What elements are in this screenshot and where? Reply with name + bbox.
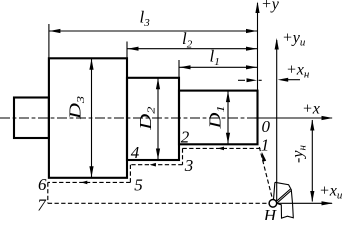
centerline: [0, 117, 258, 119]
dimension D2: [157, 78, 159, 160]
tool path 6-7: [47, 182, 49, 203]
tool path 1-2: [183, 147, 261, 149]
tool holder: [275, 182, 293, 218]
svg-text:0: 0: [261, 117, 270, 136]
tool path H-1 diagonal: [259, 147, 272, 200]
machine axis x_n right arrow: [238, 79, 245, 81]
dimension -y_n: [311, 120, 313, 202]
extension line l2: [126, 42, 128, 59]
svg-text:H: H: [263, 206, 278, 220]
svg-text:4: 4: [131, 143, 140, 162]
tool path 7-H: [48, 202, 269, 204]
svg-text:6: 6: [38, 175, 47, 194]
tool path 2-3: [182, 148, 184, 164]
workpiece stub (chuck end): [14, 98, 49, 139]
dimension D3: [91, 58, 93, 178]
tool tip circle H: [269, 200, 277, 208]
dimension l1: [179, 66, 258, 68]
extension line l3: [48, 24, 50, 58]
svg-text:1: 1: [261, 136, 270, 155]
dimension l2: [127, 48, 258, 50]
workpiece step D1: [179, 91, 258, 145]
tool path 3-4: [130, 164, 182, 166]
axis +x_u: [277, 202, 332, 204]
svg-text:2: 2: [181, 127, 190, 146]
tool path 4-5: [129, 165, 131, 183]
dimension D1: [227, 91, 229, 145]
svg-text:3: 3: [184, 156, 194, 175]
axis +y_u: [276, 40, 278, 201]
axis +y: [257, 3, 259, 91]
tool path 5-6: [48, 181, 131, 183]
dimension l3: [49, 30, 258, 32]
axis +x: [258, 117, 333, 119]
svg-text:+y: +y: [261, 0, 280, 13]
svg-text:+x: +x: [302, 101, 320, 118]
tool cutting edge: [277, 189, 292, 203]
workpiece step D2: [127, 78, 179, 160]
workpiece step D3: [49, 58, 127, 178]
machine axis x_n left arrow: [288, 79, 300, 81]
extension line l1: [178, 60, 180, 78]
svg-text:5: 5: [134, 176, 143, 195]
